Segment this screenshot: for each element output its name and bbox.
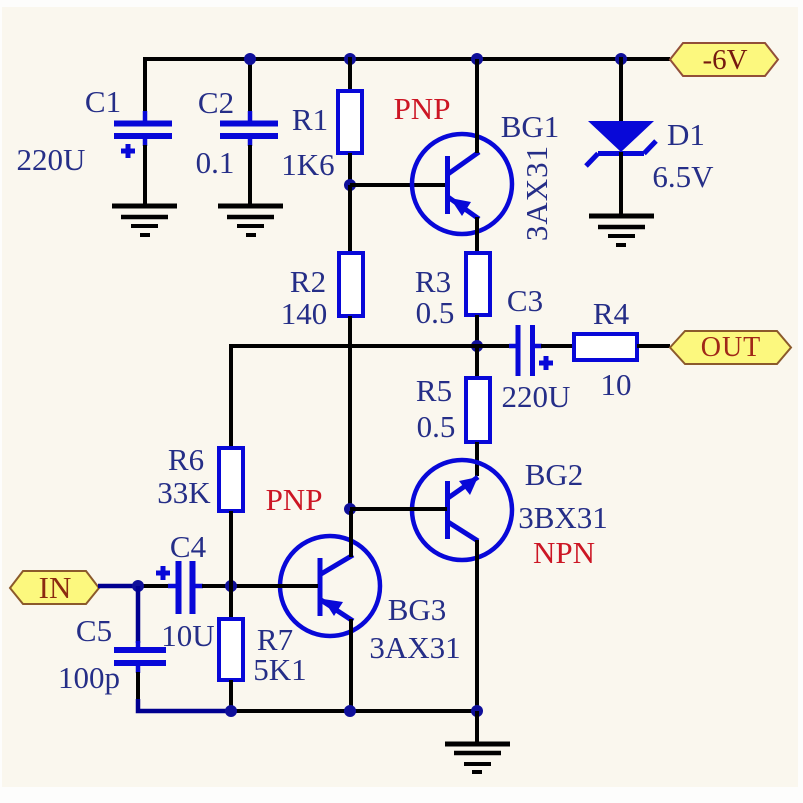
wire C5 top (navy)	[136, 586, 141, 643]
wire C5 bottom lead	[136, 662, 141, 673]
wire R6 top (from OUT rail corner)	[229, 344, 233, 449]
wire C4 right lead	[194, 584, 203, 589]
ground (C2)	[218, 206, 283, 235]
resistor R2	[339, 253, 363, 316]
svg-text:6.5V: 6.5V	[652, 159, 714, 194]
wire C5 to bottom rail (navy)	[138, 699, 232, 711]
node junction C5 tap	[132, 580, 144, 592]
resistor R5	[466, 378, 490, 442]
svg-text:BG2: BG2	[525, 457, 584, 492]
wire ground stem (bottom)	[475, 711, 479, 746]
svg-text:10U: 10U	[161, 618, 214, 653]
svg-text:R1: R1	[292, 102, 328, 137]
svg-text:C4: C4	[170, 529, 207, 564]
svg-text:BG3: BG3	[388, 592, 447, 627]
node junction OUT/R3/R5	[471, 340, 483, 352]
svg-text:R4: R4	[593, 296, 630, 331]
wire C5 bottom	[136, 672, 140, 700]
wire BG3 base	[231, 584, 318, 588]
svg-text:0.1: 0.1	[196, 145, 235, 180]
capacitor C2	[220, 124, 278, 137]
port IN	[10, 570, 99, 605]
node junction bottom-BG3	[344, 705, 356, 717]
wire R3 bottom	[475, 315, 479, 348]
wire IN to C5 node (navy)	[98, 584, 139, 589]
capacitor C3	[509, 325, 553, 376]
svg-text:C3: C3	[507, 283, 543, 318]
svg-text:C2: C2	[198, 85, 234, 120]
svg-text:100p: 100p	[58, 660, 120, 695]
transistor BG2	[412, 460, 512, 560]
diode D1 (zener)	[586, 121, 656, 166]
wire D1 top	[619, 57, 623, 123]
wire bottom rail	[231, 709, 477, 713]
svg-text:3AX31: 3AX31	[369, 630, 460, 665]
wire R7 top	[229, 586, 233, 620]
wire C2 branch	[248, 57, 252, 208]
wire BG1 base	[350, 183, 447, 187]
svg-text:OUT: OUT	[701, 332, 762, 363]
svg-text:PNP: PNP	[266, 482, 323, 517]
wire R7 bottom	[229, 680, 233, 712]
svg-text:220U: 220U	[502, 379, 571, 414]
node junction R6/R7/C4/base	[225, 580, 237, 592]
wire BG3 emitter (down)	[349, 619, 353, 712]
svg-text:1K6: 1K6	[281, 147, 334, 182]
wire C3 to R4	[541, 344, 575, 348]
node junction top-R1	[344, 53, 356, 65]
svg-text:220U: 220U	[17, 142, 86, 177]
svg-text:0.5: 0.5	[416, 295, 455, 330]
resistor R6	[219, 448, 243, 511]
capacitor C4	[156, 561, 193, 614]
wire R1 top	[348, 57, 352, 92]
svg-text:R5: R5	[416, 373, 452, 408]
wire R1 bottom	[348, 153, 352, 187]
wire C5 node to C4	[137, 584, 169, 588]
capacitor C1	[114, 124, 172, 159]
wire BG1 emitter (to top rail)	[475, 59, 479, 153]
svg-text:C5: C5	[76, 613, 112, 648]
wire C5 top lead	[136, 641, 141, 651]
wire R2 bottom (to BG3 collector node)	[348, 316, 352, 511]
wire OUT rail	[231, 344, 510, 348]
svg-text:PNP: PNP	[394, 91, 451, 126]
node junction top-BG1	[471, 53, 483, 65]
wire BG2 emitter (down to bottom rail)	[475, 540, 479, 712]
wire R5 bottom	[475, 442, 479, 476]
node junction top-C2	[244, 53, 256, 65]
svg-text:R3: R3	[415, 264, 451, 299]
svg-text:R2: R2	[290, 264, 326, 299]
node junction top-D1	[615, 53, 627, 65]
port OUT	[670, 331, 791, 364]
svg-text:BG1: BG1	[501, 109, 560, 144]
svg-text:D1: D1	[667, 117, 705, 152]
wire D1 bottom	[619, 152, 623, 218]
transistor BG1	[412, 134, 512, 234]
resistor R3	[466, 253, 490, 315]
resistor R7	[219, 619, 243, 680]
wire BG2 base	[350, 507, 447, 511]
svg-text:0.5: 0.5	[417, 409, 456, 444]
wire C1 branch	[143, 57, 147, 208]
capacitor C5	[114, 650, 166, 663]
svg-text:10: 10	[601, 367, 632, 402]
wire C4 left lead	[168, 584, 177, 589]
wire C4 to node	[202, 584, 233, 588]
svg-text:140: 140	[281, 296, 328, 331]
svg-text:5K1: 5K1	[253, 652, 306, 687]
wire R5 top	[475, 346, 479, 379]
node junction bottom-BG2	[471, 705, 483, 717]
svg-text:-6V: -6V	[702, 44, 747, 76]
svg-text:3BX31: 3BX31	[518, 500, 608, 535]
svg-text:3AX31: 3AX31	[519, 145, 554, 241]
svg-text:NPN: NPN	[533, 535, 595, 570]
resistor R1	[338, 91, 362, 153]
ground (C1)	[112, 206, 177, 235]
ground (bottom)	[445, 744, 510, 772]
ground (D1)	[589, 216, 654, 245]
wire R4 to OUT tag	[637, 344, 670, 348]
svg-text:33K: 33K	[157, 475, 211, 510]
wire top rail	[145, 57, 670, 61]
node junction BG1 base	[344, 179, 356, 191]
port -6V	[670, 43, 778, 76]
wire BG1 collector (to R3)	[475, 217, 479, 254]
transistor BG3	[280, 536, 380, 636]
svg-text:C1: C1	[85, 84, 121, 119]
svg-text:R6: R6	[168, 442, 204, 477]
node junction bottom-R7	[225, 705, 237, 717]
wire R1/R2 node to R2 top	[348, 185, 352, 254]
wire BG3 collector (to node)	[349, 511, 353, 557]
wire R6 bottom	[229, 511, 233, 586]
resistor R4	[574, 334, 637, 360]
node junction BG2 base	[344, 503, 356, 515]
svg-text:IN: IN	[39, 570, 72, 605]
